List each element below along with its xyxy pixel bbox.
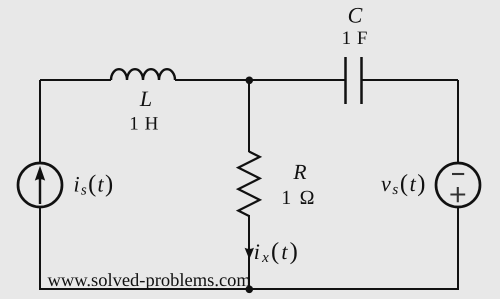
svg-text:1 H: 1 H	[129, 113, 159, 134]
svg-text:is(t): is(t)	[74, 171, 115, 199]
svg-text:C: C	[348, 3, 363, 28]
svg-text:1 Ω: 1 Ω	[281, 187, 316, 209]
svg-text:L: L	[139, 86, 152, 111]
svg-text:vs(t): vs(t)	[381, 170, 427, 198]
svg-text:R: R	[292, 160, 306, 184]
svg-text:ix(t): ix(t)	[254, 238, 300, 266]
svg-text:www.solved-problems.com: www.solved-problems.com	[48, 271, 252, 291]
svg-text:1 F: 1 F	[342, 28, 369, 49]
